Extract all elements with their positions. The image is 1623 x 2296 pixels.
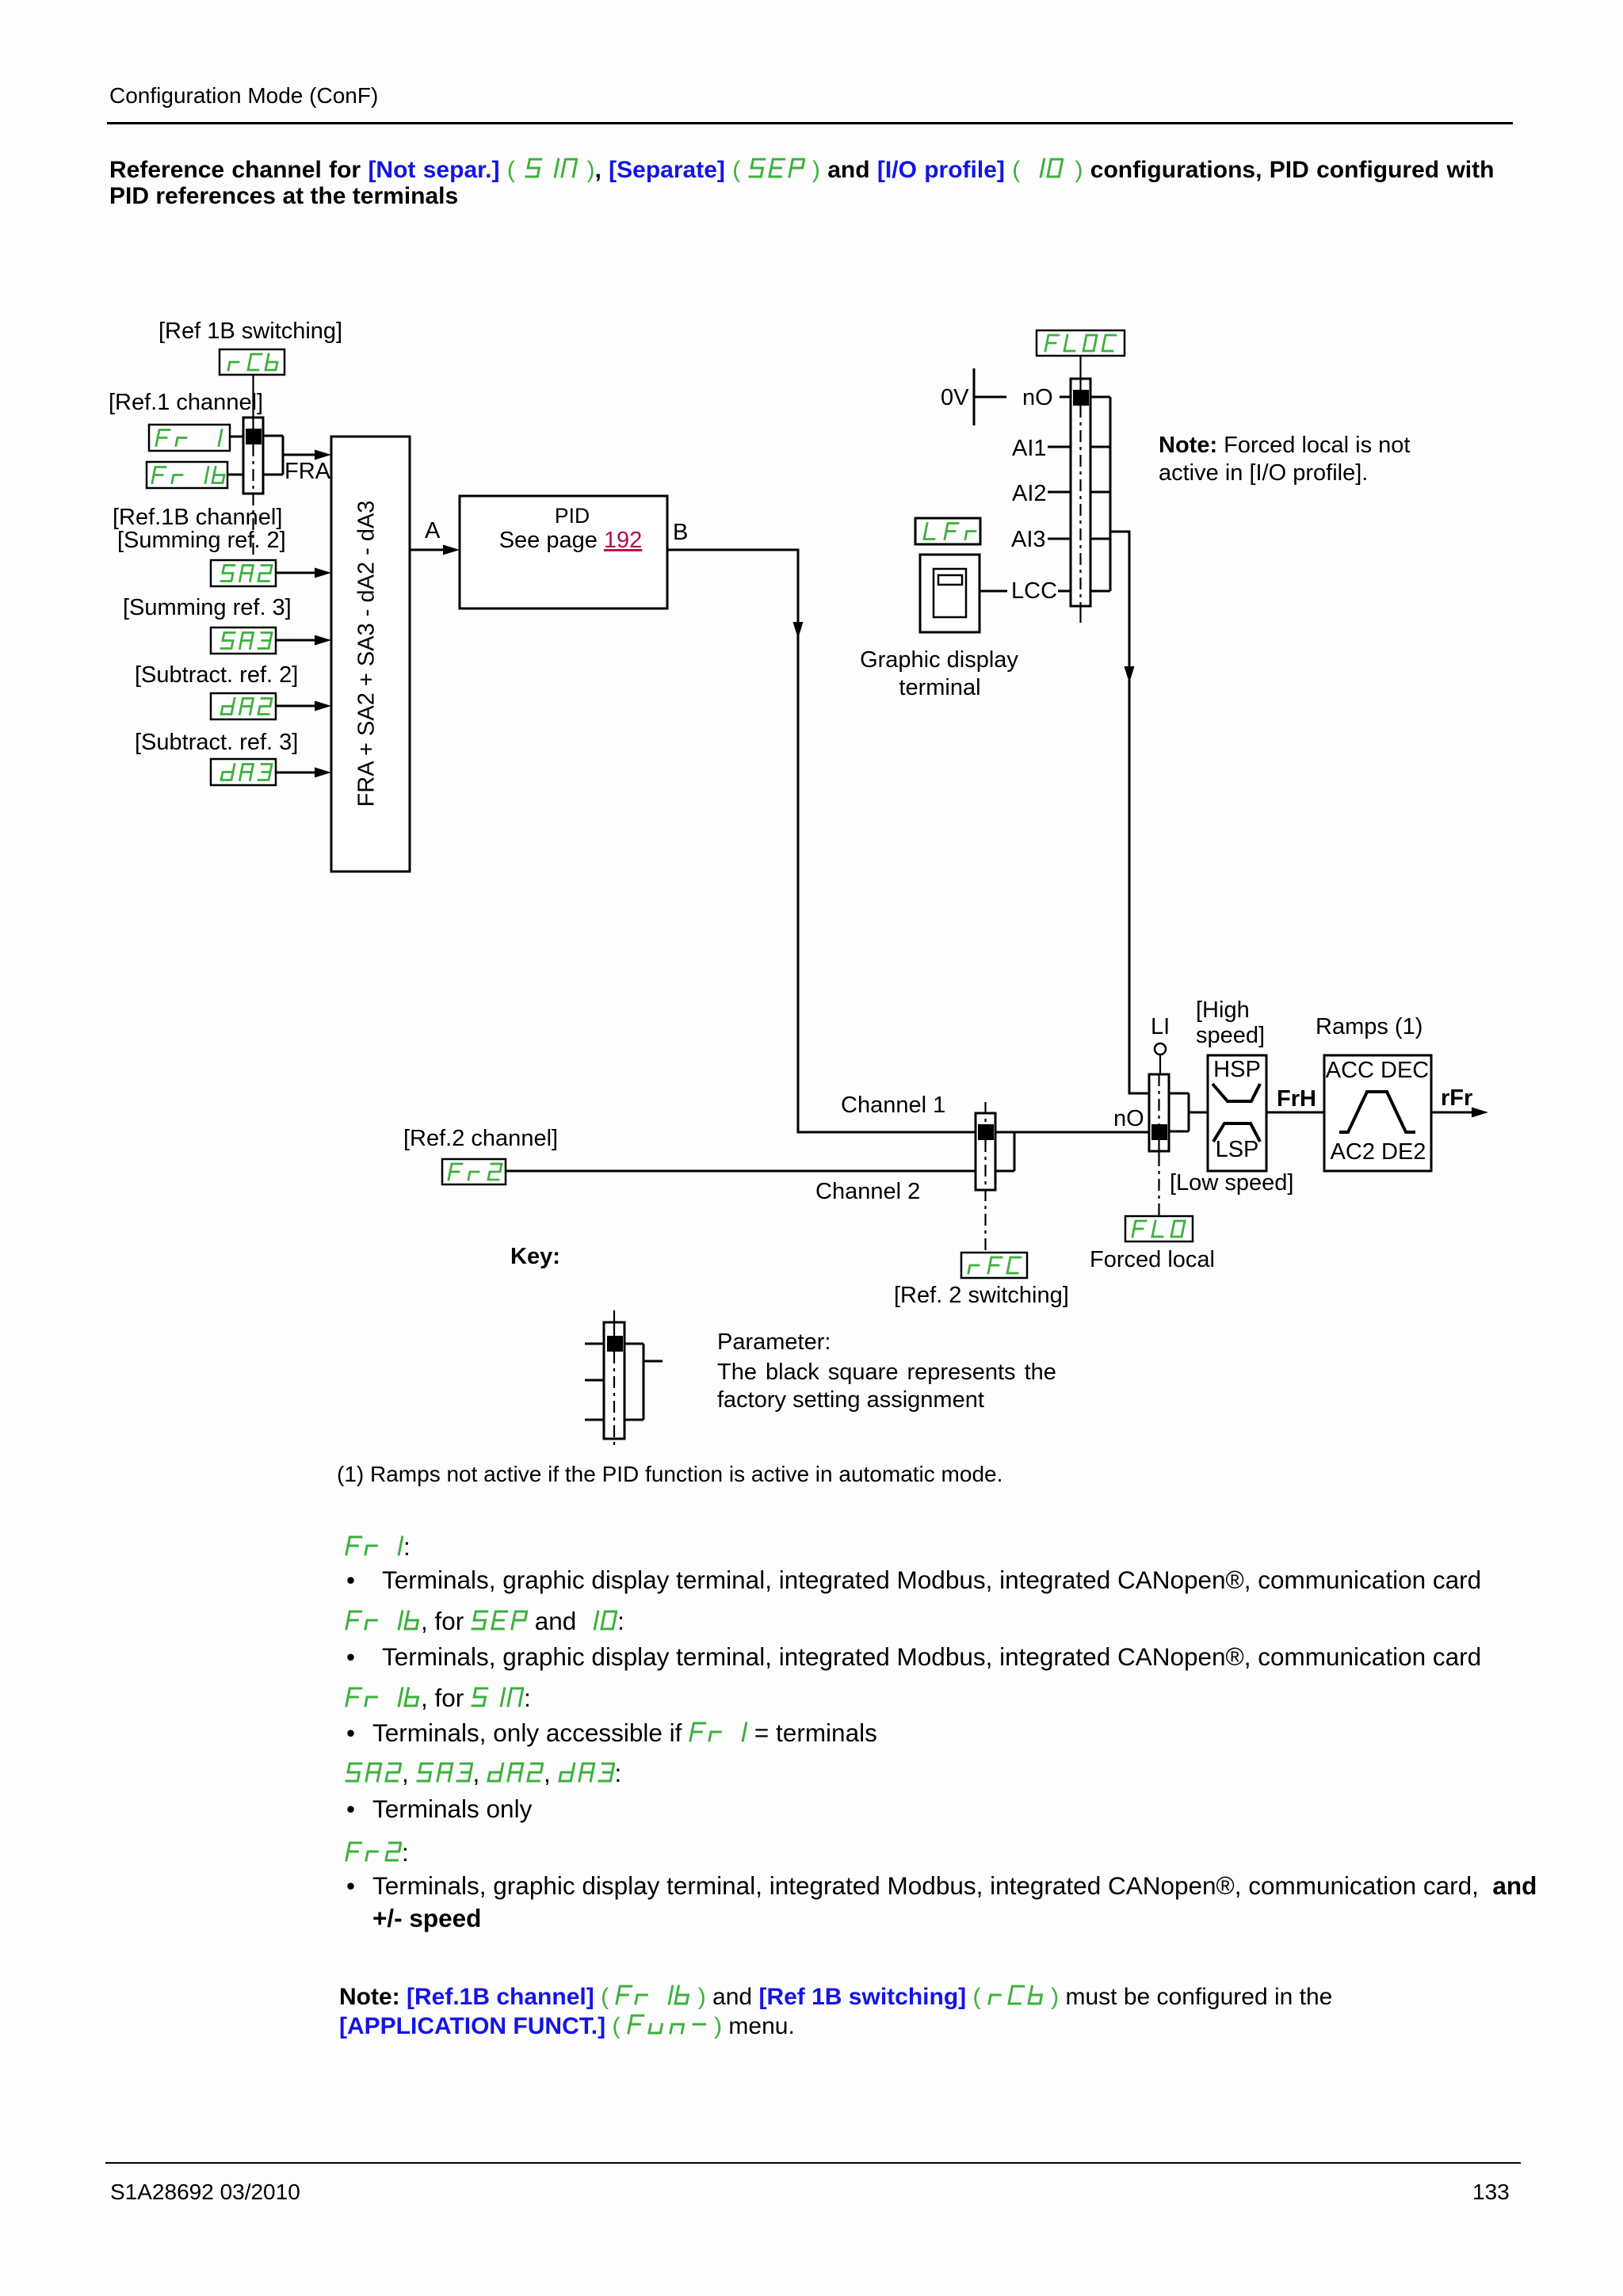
svg-text:[Summing ref. 2]: [Summing ref. 2]: [117, 528, 286, 553]
svg-text:A: A: [425, 518, 441, 543]
wire FrH: [1266, 1112, 1324, 1114]
summing box FRA + SA2 + SA3 - dA2 - dA3: [331, 437, 410, 871]
wire SA2 to summing box: [276, 572, 317, 574]
wire B: PID output down to Channel 1: [667, 550, 976, 1132]
parameter box dA3: [211, 759, 276, 785]
wire LI drop: [1159, 1055, 1161, 1074]
switch S1 (Ref.1/Ref.1B selector): [243, 375, 283, 556]
svg-text:LI: LI: [1151, 1014, 1170, 1039]
svg-text:LSP: LSP: [1216, 1137, 1259, 1162]
svg-text:[Low speed]: [Low speed]: [1170, 1170, 1293, 1196]
svg-text:[Subtract. ref. 3]: [Subtract. ref. 3]: [135, 730, 298, 755]
svg-text:nO: nO: [1113, 1106, 1144, 1131]
wire Fr1 to S1: [230, 436, 243, 438]
svg-text:[Subtract. ref. 2]: [Subtract. ref. 2]: [135, 662, 298, 688]
switch S4 (forced local): [1149, 1074, 1189, 1216]
wire SA3 to summing box: [276, 639, 317, 642]
parameter box FLOC: [1037, 330, 1125, 356]
header rule: [107, 122, 1513, 124]
svg-text:See page 192: See page 192: [499, 528, 643, 553]
parameter box Fr1b: [147, 462, 227, 488]
ramps block ACC DEC / AC2 DE2: [1324, 1055, 1431, 1171]
wire S3 output to S4: [1014, 1131, 1149, 1134]
svg-text:speed]: speed]: [1196, 1023, 1265, 1048]
switch S2 (forced local channel selector): [1071, 356, 1090, 623]
parameter box dA2: [211, 693, 276, 719]
graphic display terminal icon: [920, 555, 980, 632]
svg-text:nO: nO: [1022, 385, 1053, 410]
parameter box SA2: [211, 560, 276, 586]
wire Channel 2: [506, 1170, 976, 1173]
wire dA2 to summing box: [276, 705, 317, 707]
svg-text:active in [I/O profile].: active in [I/O profile].: [1159, 460, 1368, 486]
key parameter symbol: [585, 1310, 663, 1448]
svg-text:Key:: Key:: [510, 1244, 560, 1269]
wire AI1 stub: [1048, 446, 1071, 448]
svg-text:[Ref.1 channel]: [Ref.1 channel]: [109, 390, 263, 415]
wire S4 output to HSP/LSP: [1189, 1112, 1208, 1114]
header running title: [109, 83, 378, 109]
parameter box rCb: [220, 349, 285, 375]
svg-text:factory setting assignment: factory setting assignment: [717, 1387, 984, 1413]
parameter box LFr: [915, 518, 980, 544]
page title line 1: [109, 157, 1494, 184]
wire dA3 to summing box: [276, 772, 317, 774]
bottom note line 2: [339, 2013, 795, 2040]
svg-text:Note: Forced local is not: Note: Forced local is not: [1159, 433, 1411, 458]
svg-text:AI2: AI2: [1012, 481, 1047, 506]
svg-text:[Summing ref. 3]: [Summing ref. 3]: [123, 595, 292, 620]
svg-text:B: B: [673, 520, 688, 545]
svg-text:PID: PID: [555, 504, 590, 528]
wire nO stub: [1060, 396, 1071, 399]
wire FRA: S1 output to summing box: [283, 454, 317, 456]
switch S3 (Ref2 switching): [976, 1102, 1014, 1253]
PID block: [460, 496, 667, 608]
parameter box Fr2: [442, 1159, 506, 1184]
svg-text:FRA: FRA: [285, 459, 331, 484]
body list: [345, 1532, 411, 1562]
svg-text:rFr: rFr: [1441, 1085, 1472, 1111]
svg-text:Forced local: Forced local: [1090, 1247, 1215, 1272]
wire AI2 stub: [1048, 491, 1071, 494]
svg-text:[Ref 1B switching]: [Ref 1B switching]: [158, 318, 342, 344]
svg-text:FRA + SA2 + SA3 - dA2 - dA3: FRA + SA2 + SA3 - dA2 - dA3: [354, 501, 380, 807]
wire S2 bracket down to switch S4: [1110, 532, 1149, 1093]
svg-text:[Ref.2 channel]: [Ref.2 channel]: [403, 1126, 558, 1151]
LI input circle: [1155, 1043, 1166, 1055]
wires S2 right-side stubs and bracket: [1090, 396, 1110, 399]
svg-text:[Ref. 2 switching]: [Ref. 2 switching]: [894, 1283, 1069, 1308]
wire LCC stubs: [980, 590, 1007, 593]
parameter box Fr1: [149, 425, 230, 451]
svg-text:[Ref.1B channel]: [Ref.1B channel]: [113, 505, 282, 530]
svg-text:0V: 0V: [941, 385, 969, 410]
HSP/LSP limiter block: [1208, 1055, 1266, 1171]
footer page number: [1472, 2180, 1510, 2205]
svg-text:Channel 1: Channel 1: [841, 1093, 945, 1118]
svg-text:Parameter:: Parameter:: [717, 1329, 831, 1355]
wire Fr1b to S1: [227, 474, 243, 476]
wire A: summing box to PID: [410, 549, 445, 551]
ground 0V terminal: [941, 368, 1006, 425]
svg-text:FrH: FrH: [1277, 1086, 1316, 1112]
svg-text:AI1: AI1: [1012, 436, 1047, 461]
svg-text:Channel 2: Channel 2: [815, 1179, 920, 1204]
bottom note line 1: [339, 1984, 1332, 2011]
parameter box SA3: [211, 627, 276, 654]
svg-text:[High: [High: [1196, 997, 1250, 1023]
svg-text:LCC: LCC: [1011, 578, 1057, 604]
wire AI3 stub: [1048, 538, 1071, 540]
parameter box FLO: [1125, 1216, 1193, 1241]
svg-text:Ramps (1): Ramps (1): [1316, 1014, 1423, 1039]
footnote (1): [337, 1462, 1002, 1487]
svg-text:AC2 DE2: AC2 DE2: [1331, 1139, 1426, 1165]
svg-text:Graphic display: Graphic display: [860, 647, 1018, 673]
footer rule: [105, 2162, 1521, 2164]
svg-text:The black square represents th: The black square represents the: [717, 1360, 1056, 1385]
wire rFr output: [1431, 1112, 1472, 1114]
svg-text:HSP: HSP: [1213, 1057, 1261, 1082]
svg-text:terminal: terminal: [899, 675, 980, 700]
svg-text:ACC DEC: ACC DEC: [1326, 1058, 1430, 1083]
page title line 2: [109, 183, 458, 210]
svg-text:AI3: AI3: [1011, 527, 1046, 552]
parameter box rFC: [961, 1253, 1027, 1278]
footer left: [110, 2180, 300, 2205]
